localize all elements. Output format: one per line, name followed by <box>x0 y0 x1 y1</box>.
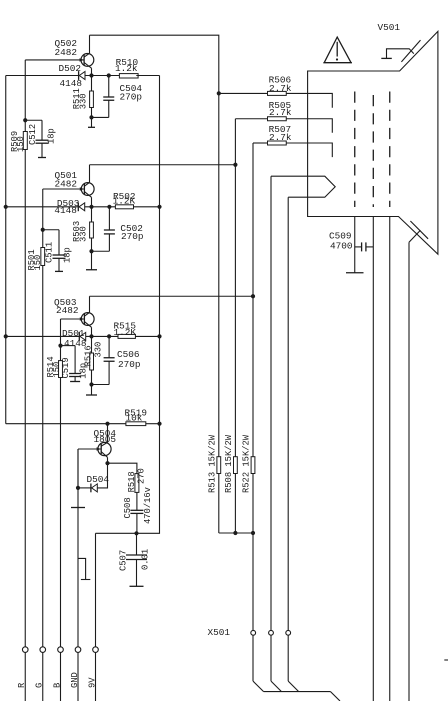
capacitor C507 <box>136 533 138 555</box>
svg-text:R508 15K/2W: R508 15K/2W <box>224 434 234 493</box>
CRT grid G2 dashed <box>354 92 356 208</box>
warning triangle <box>324 37 351 63</box>
resistor R511 <box>91 76 93 92</box>
resistor R518 <box>135 474 139 493</box>
svg-text:10k: 10k <box>126 413 143 424</box>
wire: emitter row stage1 <box>85 75 119 77</box>
svg-text:X501: X501 <box>208 627 231 638</box>
resistor R522 <box>251 457 255 474</box>
wire: R510 to feedback rail <box>136 75 159 77</box>
wire: C512 branch <box>25 119 42 121</box>
connector pin 9V <box>93 647 99 653</box>
svg-text:R513 15K/2W: R513 15K/2W <box>207 434 217 493</box>
connector pin G <box>40 647 46 653</box>
node: Q504 collector junction <box>105 422 109 426</box>
svg-text:18p: 18p <box>79 363 89 379</box>
wire: GND jog hook <box>78 558 86 579</box>
CRT V501 outline <box>308 31 438 254</box>
wire: C502 bottom to R503 <box>92 250 110 252</box>
ground stage3 <box>86 394 97 396</box>
resistor R519 <box>126 422 146 426</box>
capacitor C519 <box>74 346 76 374</box>
node: R501/C511 junction <box>41 228 45 232</box>
svg-text:330: 330 <box>79 226 89 242</box>
wire: R505 to cathode <box>286 119 332 133</box>
CRT getter bar <box>381 57 392 59</box>
ground C509 <box>346 272 364 274</box>
wire: GND hook bar <box>81 579 90 581</box>
node: bleeder join 1 <box>233 531 237 535</box>
wire: G2 line below CRT <box>354 217 356 273</box>
ground symbol on GND line <box>71 507 85 509</box>
resistor R509 <box>23 132 27 150</box>
svg-text:1.2K: 1.2K <box>113 196 136 207</box>
svg-text:D504: D504 <box>87 474 110 485</box>
capacitor C509 <box>355 246 362 248</box>
wire: B line below connector <box>60 652 62 701</box>
wire: Q504 base <box>78 448 101 450</box>
wire: flag leg to X501 pin3 <box>287 197 289 630</box>
svg-text:1805: 1805 <box>94 434 117 445</box>
wire: X501-2 lead <box>270 635 272 681</box>
resistor R503 <box>91 207 93 222</box>
wire: heater line 1 <box>372 217 374 701</box>
svg-text:B: B <box>52 683 62 688</box>
node: Q501 emitter junction <box>89 205 93 209</box>
CRT gun flag (G1) <box>271 176 335 197</box>
diode D502 <box>78 71 80 80</box>
svg-text:2482: 2482 <box>55 179 78 190</box>
connector pin R <box>22 647 28 653</box>
svg-text:C507: C507 <box>118 550 128 571</box>
wire: R505 left <box>235 118 267 120</box>
ground C507 <box>130 585 144 587</box>
svg-text:C511: C511 <box>45 242 55 263</box>
node: R516 bottom junction <box>89 382 93 386</box>
node: C506 top junction <box>107 334 111 338</box>
node: R509/C512 junction <box>23 118 27 122</box>
resistor R502 <box>115 205 133 209</box>
node: rail/R519 <box>157 422 161 426</box>
svg-text:9V: 9V <box>87 677 97 688</box>
wire: R line below connector <box>24 652 26 701</box>
node: C502 top junction <box>107 205 111 209</box>
transistor Q503 <box>81 313 94 326</box>
node: R514/C519 junction <box>58 344 62 348</box>
svg-text:18p: 18p <box>47 128 57 144</box>
wire: heater line 2 <box>389 217 391 701</box>
node: rail tap stage3 <box>157 334 161 338</box>
wire: D501 anode <box>6 335 80 337</box>
ground C512 <box>38 157 46 159</box>
CRT inner funnel line top <box>401 40 420 62</box>
wire: R507 left <box>253 142 268 144</box>
CRT inner funnel line bottom <box>410 221 428 239</box>
svg-text:150: 150 <box>52 362 62 378</box>
wire: emitter row stage2 <box>85 206 116 208</box>
wire: right edge stub <box>444 659 448 661</box>
svg-text:2482: 2482 <box>55 47 78 58</box>
transistor Q504 <box>98 442 111 455</box>
svg-text:18p: 18p <box>63 247 73 263</box>
CRT grid G4 dashed <box>389 92 391 208</box>
wire: Q501 collector top run <box>90 164 236 166</box>
wire: R506 left <box>219 92 268 94</box>
diode D504 <box>90 484 92 493</box>
node: stage2 output joins R505 line <box>233 163 237 167</box>
svg-text:V501: V501 <box>378 22 401 33</box>
ground stage1 <box>88 126 95 128</box>
wire: flag leg to X501 pin2 <box>270 176 272 630</box>
svg-text:4148: 4148 <box>60 78 83 89</box>
wire: C507 ground stub <box>136 560 138 587</box>
node: stage3 output joins R507 line <box>251 294 255 298</box>
svg-text:150: 150 <box>16 136 26 152</box>
wire: anode lead <box>408 242 410 701</box>
svg-text:2.7k: 2.7k <box>269 107 292 118</box>
node: D503 anode tap <box>4 205 8 209</box>
transistor Q501 <box>81 183 94 196</box>
ground stage2 <box>86 269 97 271</box>
svg-text:330: 330 <box>93 342 103 358</box>
svg-text:D502: D502 <box>59 63 82 74</box>
node: Q502 emitter junction <box>89 73 93 77</box>
wire: D504 cathode up to emitter <box>97 463 107 488</box>
wire: R signal line (base Q502) <box>24 60 26 132</box>
capacitor C502 <box>108 207 110 230</box>
wire: C506 bottom to R516 <box>92 384 110 386</box>
node: D501 anode tap <box>4 334 8 338</box>
diode D501 <box>78 332 80 341</box>
resistor R508 <box>234 457 238 474</box>
connector pin X501-2 <box>269 630 274 635</box>
wire: stage3 ground stub <box>91 385 93 396</box>
svg-text:1.2k: 1.2k <box>115 63 138 74</box>
svg-text:GND: GND <box>70 672 80 688</box>
wire: B signal line (base Q503) <box>60 319 62 361</box>
node: R506 tap <box>217 91 221 95</box>
wire: blanking feed <box>6 423 126 425</box>
svg-text:2.7k: 2.7k <box>269 83 292 94</box>
connector pin X501-3 <box>286 630 291 635</box>
svg-text:4700: 4700 <box>330 241 353 252</box>
wire: stage1 ground stub <box>91 117 93 127</box>
svg-text:470/16v: 470/16v <box>143 487 153 524</box>
svg-text:4148: 4148 <box>54 205 77 216</box>
node: R503 bottom junction <box>89 249 93 253</box>
node: C507/C508 junction <box>134 531 138 535</box>
wire: 9V supply line <box>95 533 97 647</box>
svg-text:270: 270 <box>136 468 146 484</box>
wire: C519 branch <box>61 345 76 347</box>
wire: R502 to feedback rail <box>134 206 160 208</box>
node: rail tap stage2 <box>157 205 161 209</box>
svg-text:R522 15K/2W: R522 15K/2W <box>242 434 252 493</box>
resistor R510 <box>119 74 138 78</box>
connector pin B <box>58 647 64 653</box>
wire: R-cathode bus <box>218 93 220 456</box>
resistor R514 <box>59 361 63 378</box>
svg-text:R: R <box>17 682 27 688</box>
wire: D503 anode <box>6 206 79 208</box>
resistor R515 <box>118 334 135 338</box>
svg-text:G: G <box>35 683 45 688</box>
svg-text:150: 150 <box>33 255 43 271</box>
CRT grid G3 dashed <box>372 95 374 207</box>
wire: D504 anode <box>78 487 91 489</box>
svg-text:330: 330 <box>78 93 88 109</box>
node: R511 bottom junction <box>89 115 93 119</box>
svg-text:270p: 270p <box>118 359 141 370</box>
resistor R513 <box>217 457 221 474</box>
wire: Q501 base <box>43 188 85 190</box>
wire: R507 to cathode <box>286 143 332 157</box>
capacitor C511 <box>58 230 60 255</box>
wire: B-cathode bus <box>252 143 254 457</box>
wire: GND line / Q504 base leg <box>77 449 79 647</box>
wire: R506 to cathode <box>286 93 332 107</box>
transistor Q502 <box>81 54 94 67</box>
wire: stage2 ground stub <box>91 251 93 270</box>
svg-text:1.2K: 1.2K <box>114 327 137 338</box>
capacitor C504 <box>108 76 110 98</box>
node: Q503 emitter junction <box>89 334 93 338</box>
svg-text:C508: C508 <box>123 497 133 518</box>
wire: feedback rail <box>96 76 160 534</box>
capacitor C512 <box>41 120 43 140</box>
svg-text:0.01: 0.01 <box>140 549 150 570</box>
wire: Q502 collector top run <box>90 35 219 93</box>
wire: emitter row stage3 <box>86 335 118 337</box>
wire: D502 anode <box>6 75 79 77</box>
resistor R506 <box>268 91 287 95</box>
svg-text:C512: C512 <box>28 124 38 145</box>
wire: C511 branch <box>43 229 59 231</box>
ground C511 <box>55 270 63 272</box>
node: D504 anode junction <box>76 486 80 490</box>
wire: G signal line (base Q501) <box>42 189 44 248</box>
svg-text:2.7k: 2.7k <box>269 132 292 143</box>
diode D503 <box>77 202 79 211</box>
wire: bleeder down to X501 <box>252 533 254 630</box>
wire: bleeder common <box>219 532 253 534</box>
svg-text:2482: 2482 <box>56 305 79 316</box>
connector pin X501-1 <box>251 630 256 635</box>
resistor R516 <box>91 336 93 353</box>
wire: diode common line (left, x=6) <box>5 76 7 424</box>
ground C519 <box>70 381 80 383</box>
wire: X501-1 lead <box>252 635 254 681</box>
svg-text:270p: 270p <box>121 231 144 242</box>
wire: G line below connector <box>42 652 44 701</box>
wire: Q503 base <box>61 318 85 320</box>
capacitor C506 <box>108 336 110 357</box>
wire: Q503 collector top run <box>90 295 254 297</box>
wire: G-cathode bus <box>234 119 236 457</box>
resistor R507 <box>268 141 287 145</box>
resistor R501 <box>41 248 45 266</box>
wire: R519 to rail <box>146 423 160 425</box>
node: bleeder join 2 <box>251 531 255 535</box>
wire: Q504 emitter to R518 <box>108 463 137 473</box>
wire: X501-3 lead <box>287 635 289 681</box>
svg-text:270p: 270p <box>120 92 143 103</box>
CRT getter hook <box>387 49 414 59</box>
wire: C504 bottom to R511 <box>92 116 109 118</box>
node: C504 top junction <box>107 73 111 77</box>
wire: R515 to feedback rail <box>135 335 159 337</box>
resistor R505 <box>268 117 287 121</box>
node: Q504 emitter junction <box>105 461 109 465</box>
wire: harness run <box>264 691 331 693</box>
connector pin GND <box>75 647 81 653</box>
capacitor C508 <box>136 492 138 510</box>
wire: Q502 base <box>25 59 84 61</box>
wire: Q504 base corner <box>77 449 79 488</box>
